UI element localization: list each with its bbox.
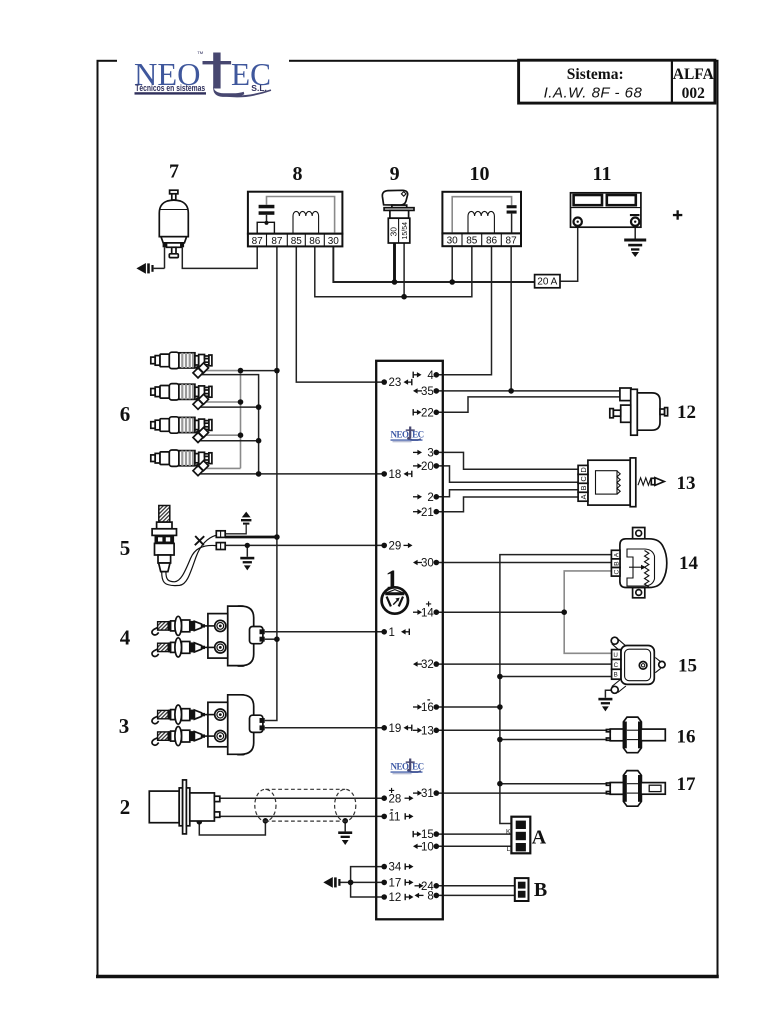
svg-text:™: ™: [197, 51, 204, 58]
svg-text:32: 32: [421, 659, 434, 671]
svg-text:4: 4: [120, 626, 131, 650]
svg-text:D: D: [579, 467, 588, 473]
svg-text:15: 15: [421, 829, 434, 841]
svg-text:EC: EC: [412, 762, 424, 772]
svg-text:1: 1: [386, 565, 399, 594]
svg-text:A: A: [579, 494, 588, 499]
svg-text:12: 12: [389, 892, 402, 904]
svg-text:1: 1: [389, 627, 395, 639]
svg-text:Sistema:: Sistema:: [567, 66, 624, 83]
svg-text:Técnicos en sistemas: Técnicos en sistemas: [135, 83, 205, 93]
svg-text:7: 7: [169, 161, 179, 183]
svg-text:C: C: [579, 476, 588, 482]
svg-text:9: 9: [390, 163, 400, 185]
svg-text:C: C: [614, 662, 619, 669]
svg-text:+: +: [389, 785, 395, 797]
svg-text:C: C: [613, 570, 620, 575]
svg-text:8: 8: [293, 163, 303, 185]
svg-text:17: 17: [677, 774, 697, 795]
svg-text:85: 85: [291, 236, 303, 247]
svg-text:8: 8: [427, 891, 433, 903]
svg-text:87: 87: [271, 236, 283, 247]
svg-text:L: L: [507, 846, 511, 853]
svg-text:30: 30: [421, 558, 434, 570]
svg-text:22: 22: [421, 407, 434, 419]
svg-text:B: B: [613, 561, 620, 566]
svg-text:A: A: [532, 827, 547, 849]
svg-text:86: 86: [486, 236, 498, 247]
svg-text:20: 20: [421, 461, 434, 473]
svg-text:15: 15: [678, 656, 697, 677]
svg-text:4: 4: [427, 370, 434, 382]
svg-text:2: 2: [427, 492, 433, 504]
svg-text:23: 23: [389, 377, 402, 389]
svg-text:ALFA: ALFA: [673, 66, 715, 83]
svg-text:3: 3: [427, 448, 433, 460]
svg-text:NEO: NEO: [391, 430, 410, 440]
svg-text:A: A: [613, 552, 620, 557]
svg-text:002: 002: [682, 85, 706, 102]
svg-text:2: 2: [120, 795, 131, 819]
svg-text:18: 18: [389, 469, 402, 481]
svg-text:EC: EC: [412, 430, 424, 440]
svg-text:11: 11: [593, 163, 612, 185]
svg-text:35: 35: [421, 386, 434, 398]
svg-text:K: K: [506, 828, 511, 835]
svg-text:3: 3: [119, 714, 130, 738]
svg-text:14: 14: [679, 553, 699, 574]
svg-text:85: 85: [466, 236, 478, 247]
svg-text:87: 87: [252, 236, 264, 247]
svg-text:30: 30: [447, 236, 459, 247]
svg-text:15/54: 15/54: [402, 222, 409, 240]
svg-text:10: 10: [470, 163, 490, 185]
svg-text:13: 13: [421, 725, 434, 737]
svg-text:I.A.W. 8F - 68: I.A.W. 8F - 68: [544, 85, 643, 102]
svg-text:30: 30: [328, 236, 340, 247]
svg-text:12: 12: [677, 402, 696, 423]
svg-text:29: 29: [389, 541, 402, 553]
svg-text:NEO: NEO: [391, 762, 410, 772]
svg-text:20 A: 20 A: [537, 277, 557, 288]
svg-text:19: 19: [389, 723, 402, 735]
svg-text:34: 34: [389, 862, 402, 874]
svg-text:6: 6: [120, 402, 131, 426]
svg-text:31: 31: [421, 788, 434, 800]
svg-text:87: 87: [506, 236, 518, 247]
svg-text:21: 21: [421, 507, 434, 519]
svg-text:B: B: [534, 879, 547, 901]
svg-text:U: U: [613, 652, 617, 659]
svg-text:13: 13: [677, 473, 696, 494]
svg-text:16: 16: [677, 727, 696, 748]
svg-text:17: 17: [389, 878, 402, 890]
svg-text:B: B: [579, 485, 588, 490]
svg-text:+: +: [426, 599, 432, 611]
svg-text:30: 30: [388, 227, 398, 237]
svg-text:S.L.: S.L.: [251, 83, 267, 93]
svg-text:5: 5: [120, 536, 131, 560]
svg-text:86: 86: [309, 236, 321, 247]
svg-text:B: B: [614, 672, 618, 679]
svg-text:-: -: [390, 804, 394, 816]
svg-text:-: -: [427, 694, 431, 706]
svg-text:10: 10: [421, 841, 434, 853]
